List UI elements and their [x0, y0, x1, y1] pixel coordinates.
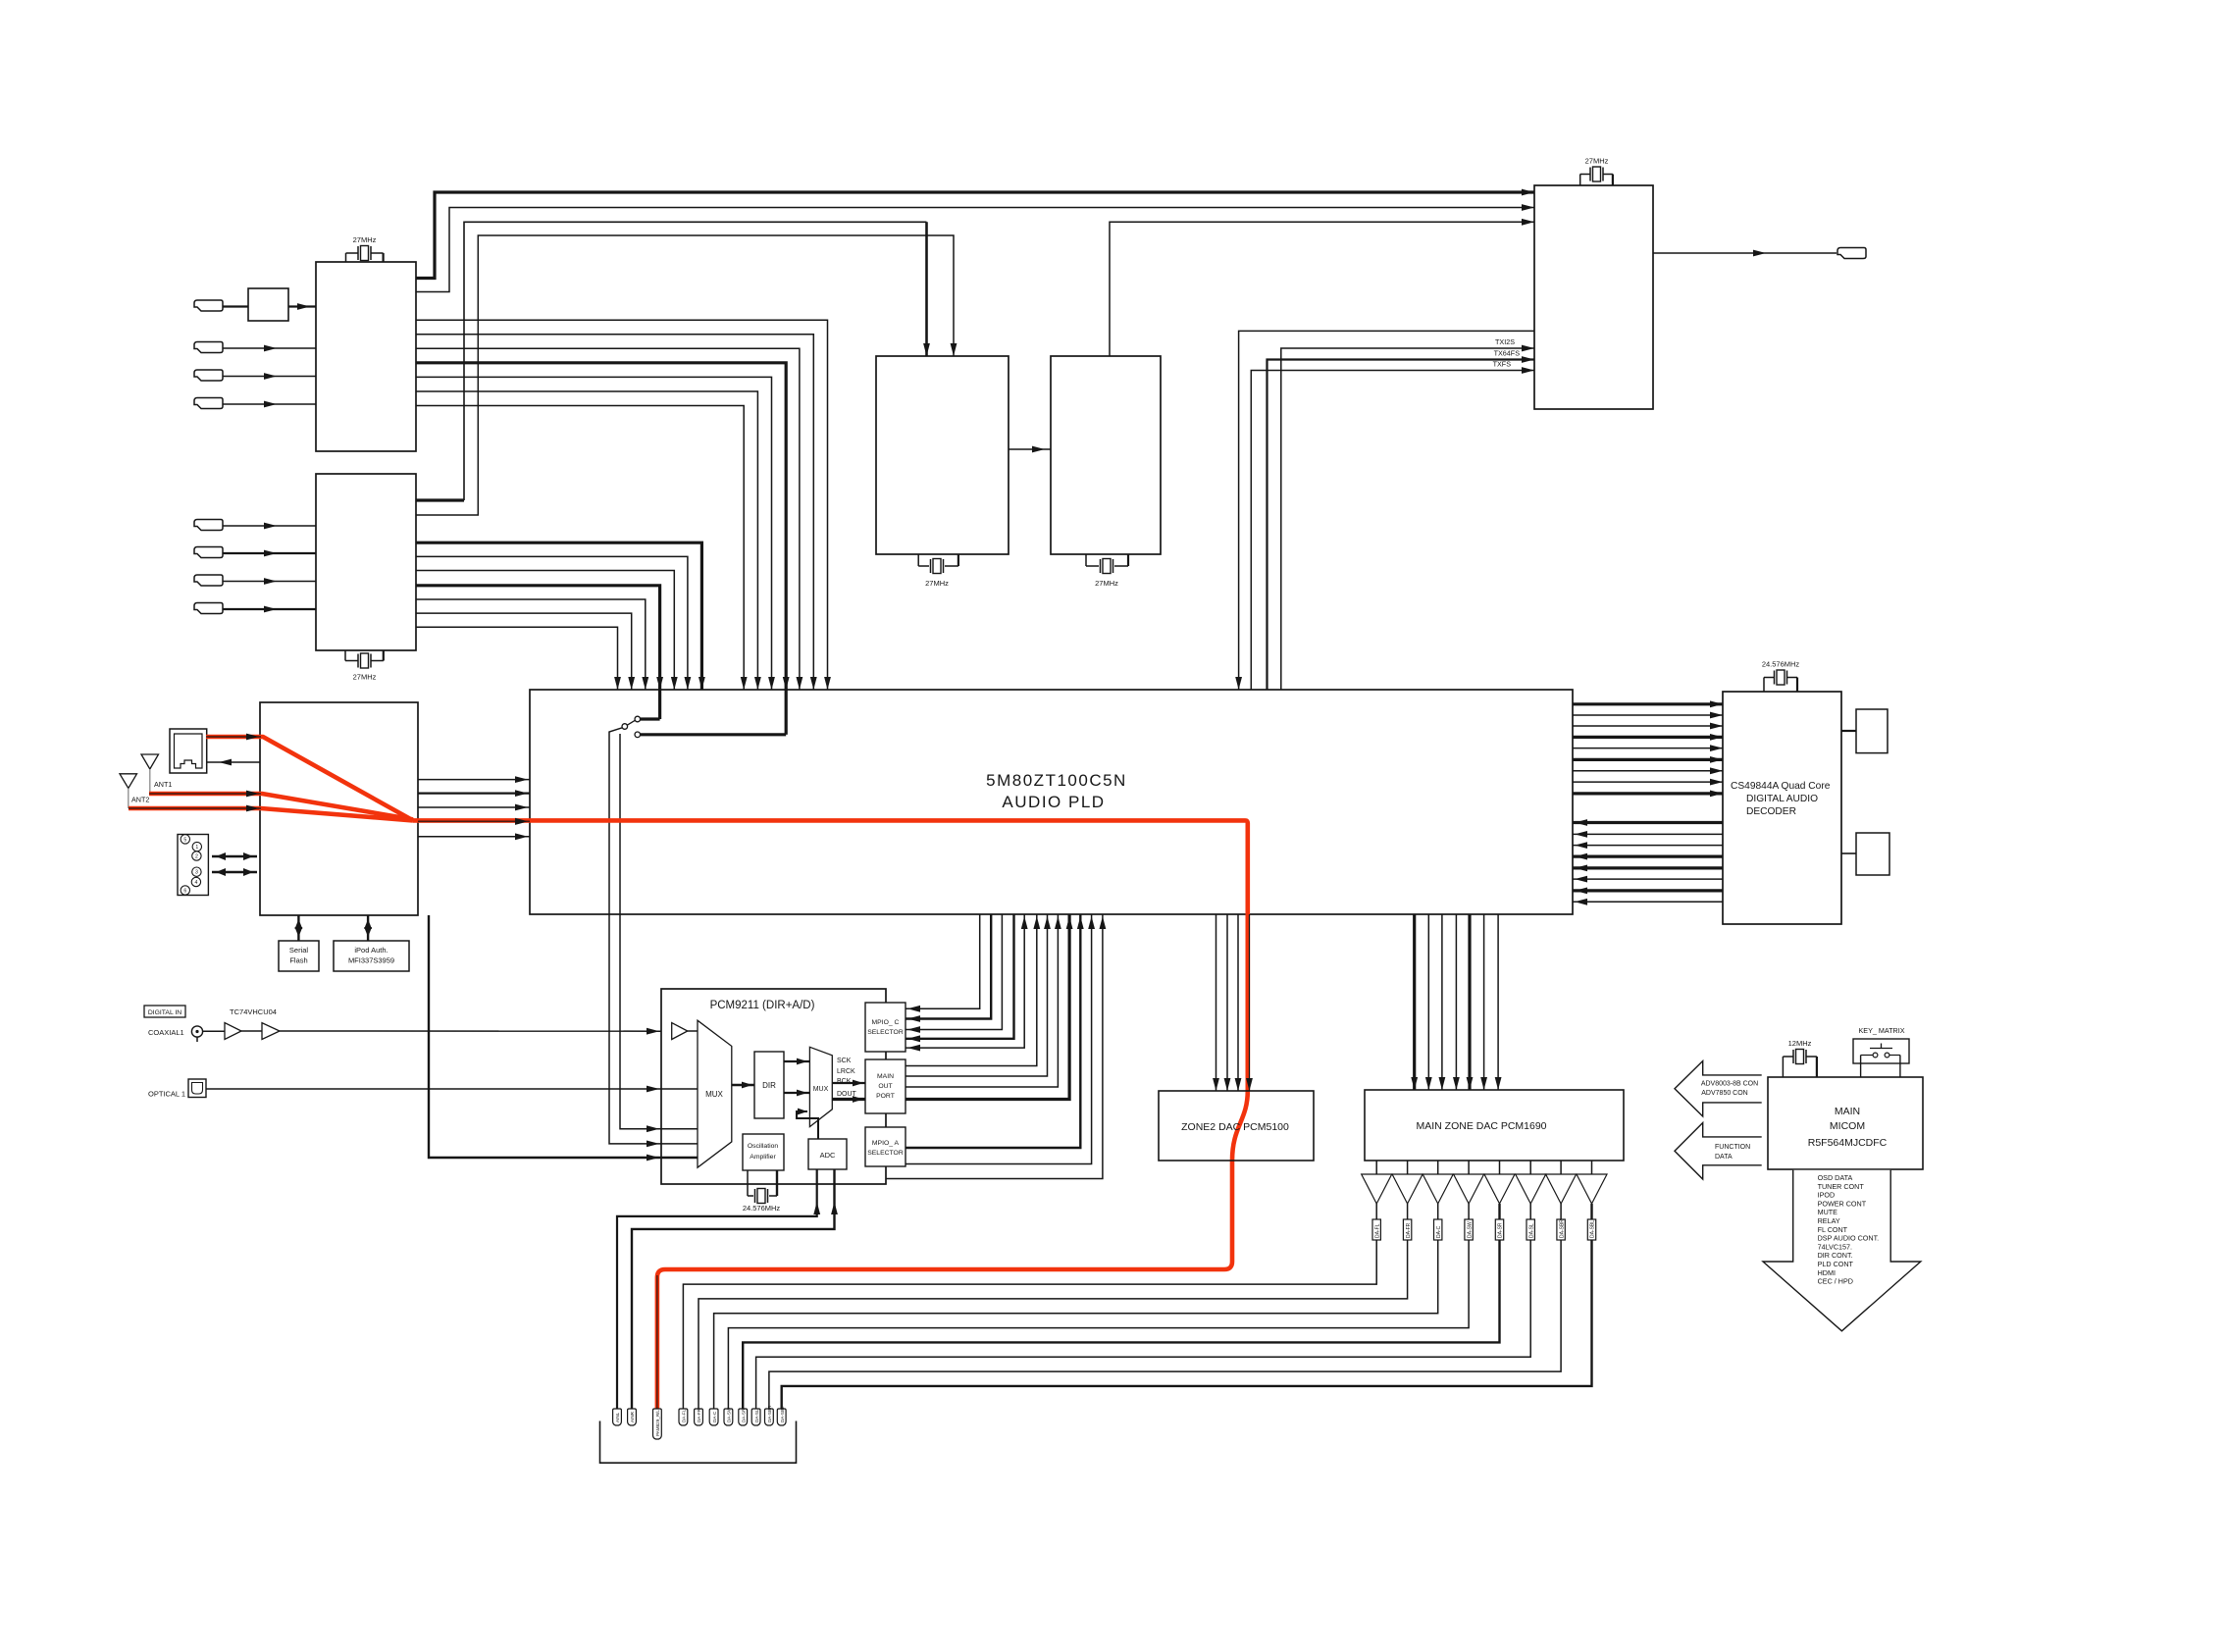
svg-text:5M80ZT100C5N: 5M80ZT100C5N [986, 771, 1127, 790]
Oscillation Amplifier block [743, 1134, 784, 1170]
svg-text:DIGITAL AUDIO: DIGITAL AUDIO [1746, 794, 1818, 804]
wire R2 to output connector pin [699, 1240, 1408, 1409]
resistor R1 DA-FL [1372, 1219, 1380, 1240]
wire wireless module to PLD line 4 [418, 820, 530, 822]
black core of red wire from LAN jack [206, 736, 261, 738]
AUDIO PLD block 5M80ZT100C5N [530, 690, 1573, 914]
svg-text:MPIO_ C: MPIO_ C [872, 1019, 900, 1026]
wire U2 output 5 to PLD top [416, 599, 646, 690]
wire module to DIN connector (bus 1) [212, 855, 257, 858]
svg-text:DA-SR: DA-SR [1498, 1222, 1504, 1238]
op-amp buffer A4 under MAIN ZONE DAC [1468, 1161, 1470, 1174]
svg-text:AINR: AINR [630, 1411, 635, 1422]
wire U2 output 4 to PLD top [416, 586, 660, 690]
svg-text:POWER CONT: POWER CONT [1818, 1199, 1867, 1208]
wire decoder to PLD line 8 [1573, 901, 1723, 903]
wire MAIN OUT PORT to PLD line 4 [906, 914, 1069, 1100]
svg-text:DA-SW: DA-SW [727, 1407, 732, 1422]
wire decoder to PLD line 4 [1573, 854, 1723, 857]
wire PLD to decoder line 7 [1573, 770, 1723, 772]
svg-text:MFI337S3959: MFI337S3959 [348, 956, 394, 965]
red highlighted audio path (net AIR_IN) [129, 737, 1248, 1409]
wire PLD to MAIN ZONE DAC line 3 [1441, 914, 1443, 1090]
wire DIR to output MUX line 1 [784, 1060, 809, 1062]
svg-text:5: 5 [183, 837, 186, 843]
output connector pin tag DA-SR [739, 1409, 748, 1425]
output connector pin tag DA-SBR [765, 1409, 774, 1425]
HDMI transmitter block U5 [1534, 185, 1653, 409]
wire R8 to output connector pin [782, 1240, 1592, 1409]
SDRAM block right of decoder [1856, 709, 1888, 753]
wire PLD to MPIO_C line 5 [906, 914, 1024, 1048]
svg-text:KEY_ MATRIX: KEY_ MATRIX [1859, 1026, 1905, 1035]
wire A2 to resistor R2 [1407, 1204, 1409, 1219]
wire PLD to decoder line 8 [1573, 781, 1723, 783]
MPIO_A SELECTOR block [865, 1127, 906, 1166]
wire J8 to U2 [223, 608, 316, 610]
svg-text:Amplifier: Amplifier [750, 1154, 776, 1161]
svg-text:27MHz: 27MHz [1095, 579, 1118, 588]
buffer 2 TC74VHCU04 [262, 1023, 280, 1040]
svg-text:SELECTOR: SELECTOR [867, 1029, 904, 1036]
wire wireless module to PLD line 1 [418, 779, 530, 781]
wire PLD to MAIN ZONE DAC line 2 [1427, 914, 1429, 1090]
MAIN MICOM block R5F564MJCDFC [1768, 1077, 1923, 1169]
svg-text:MICOM: MICOM [1830, 1120, 1865, 1132]
svg-text:ADV8003-8B CON: ADV8003-8B CON [1701, 1081, 1758, 1088]
wire PLD to MPIO_C line 3 [906, 914, 1002, 1030]
wire module to iPod Auth [367, 915, 369, 941]
wire PLD to ZONE2 DAC line 4 (red path core) [1249, 914, 1251, 1091]
output connector pin tag DA-SBL [777, 1409, 786, 1425]
audio output connector shell [600, 1421, 797, 1464]
wire PLD to MAIN ZONE DAC line 5 [1468, 914, 1471, 1090]
HDMI output connector J9 [1837, 248, 1866, 259]
wire MUX to DIR [732, 1084, 754, 1087]
digital audio decoder block CS49844A [1723, 692, 1841, 924]
svg-text:SCK: SCK [837, 1058, 852, 1064]
svg-text:DIR CONT.: DIR CONT. [1818, 1251, 1853, 1260]
DIR block inside PCM9211 [754, 1052, 784, 1118]
HDMI input connector J3 [194, 370, 223, 381]
wire U2 output 3 to PLD top [416, 571, 674, 691]
wire PLD to ZONE2 DAC line 3 [1237, 914, 1239, 1091]
wire MAIN OUT PORT to PLD line 2 [906, 914, 1048, 1076]
wire decoder to PLD line 6 [1573, 878, 1723, 880]
svg-text:TC74VHCU04: TC74VHCU04 [230, 1007, 277, 1016]
op-amp buffer A5 under MAIN ZONE DAC [1499, 1161, 1501, 1174]
black core of red wire at bottom connector [656, 1275, 658, 1409]
wire wireless module down to PCM9211 [429, 915, 661, 1158]
wire R4 to output connector pin [728, 1240, 1469, 1409]
wire A5 to resistor R5 [1498, 1204, 1500, 1219]
svg-text:DA-FR: DA-FR [697, 1408, 701, 1422]
svg-text:MAIN: MAIN [1835, 1106, 1860, 1117]
svg-text:OSD DATA: OSD DATA [1818, 1173, 1853, 1182]
wire DIR to output MUX line 2 [784, 1092, 809, 1094]
level shifter box [248, 288, 288, 321]
wire wireless module to PLD line 3 [418, 806, 530, 808]
svg-text:24.576MHz: 24.576MHz [743, 1204, 781, 1213]
svg-text:DA-C: DA-C [712, 1411, 717, 1422]
wire TXI2S PLD to U5 [1281, 348, 1534, 914]
wire MPIO_A to PLD line 2 [906, 914, 1092, 1164]
output connector pin tag AINR [628, 1409, 637, 1425]
svg-text:DATA: DATA [1715, 1154, 1733, 1161]
wire TX64FS PLD to U5 [1268, 360, 1535, 915]
wireless module block (WiFi/BT) [260, 702, 418, 915]
wire U1 output 1 to PLD top [416, 320, 828, 690]
wire MAIN OUT PORT to PLD line 3 [906, 914, 1058, 1087]
svg-text:MAIN: MAIN [877, 1073, 894, 1080]
wire MPIO_A to PLD line 3 [886, 914, 1103, 1179]
wire PLD to MPIO_C line 4 [906, 914, 1014, 1039]
svg-text:MUTE: MUTE [1818, 1208, 1838, 1216]
svg-text:ANT1: ANT1 [154, 780, 172, 789]
wire wireless module to PLD line 5 [418, 836, 530, 838]
ZONE2 DAC PCM5100 block [1159, 1091, 1314, 1161]
input select switch SW1 inside PLD [658, 690, 661, 719]
svg-text:COAXIAL1: COAXIAL1 [148, 1028, 184, 1037]
wire module to Serial Flash [297, 915, 299, 941]
wire PLD to decoder line 4 [1573, 736, 1723, 739]
wire U1 output 4 to PLD top [416, 363, 786, 690]
wire R1 to output connector pin [683, 1240, 1376, 1409]
svg-text:TXFS: TXFS [1493, 360, 1512, 369]
block arrow MICOM to FUNCTION DATA [1675, 1123, 1762, 1180]
wire U5 output to J9 [1653, 252, 1837, 254]
wire key matrix to MICOM right [1899, 1056, 1901, 1078]
svg-text:PAM829_R/L: PAM829_R/L [655, 1410, 660, 1436]
svg-text:CEC / HPD: CEC / HPD [1818, 1277, 1853, 1286]
video encoder block U4 [1051, 356, 1161, 554]
wire level shifter to HDMI receiver U1 [288, 305, 316, 307]
op-amp buffer A8 under MAIN ZONE DAC [1591, 1161, 1593, 1174]
svg-text:PLD CONT: PLD CONT [1818, 1260, 1854, 1268]
svg-text:FL CONT: FL CONT [1818, 1225, 1848, 1234]
svg-text:DA-SW: DA-SW [1467, 1221, 1473, 1238]
antenna ANT2 [120, 774, 137, 789]
wire PLD to decoder line 6 [1573, 758, 1723, 761]
wire PLD to ZONE2 DAC line 1 [1216, 914, 1217, 1091]
wire U1 output 2 to PLD top [416, 335, 813, 690]
DIGITAL IN label [144, 1006, 185, 1017]
HDMI input connector J2 [194, 342, 223, 353]
wire R3 to output connector pin [714, 1240, 1438, 1409]
output connector pin tag PAM829_R/L [653, 1409, 662, 1439]
wire PLD to MAIN ZONE DAC line 4 [1455, 914, 1457, 1090]
wire coaxial to buffers to PCM9211 [203, 1030, 225, 1032]
DIN connector J11 [178, 835, 208, 896]
svg-text:R5F564MJCDFC: R5F564MJCDFC [1808, 1137, 1888, 1149]
svg-text:DA-SBL: DA-SBL [1590, 1220, 1596, 1238]
resistor R8 DA-SBL [1587, 1219, 1595, 1240]
svg-text:DSP AUDIO CONT.: DSP AUDIO CONT. [1818, 1234, 1880, 1243]
svg-text:ADV7850 CON: ADV7850 CON [1701, 1090, 1747, 1097]
svg-text:LRCK: LRCK [837, 1068, 855, 1075]
output connector pin tag DA-SW [724, 1409, 733, 1425]
svg-text:AUDIO PLD: AUDIO PLD [1002, 793, 1105, 811]
svg-text:6: 6 [183, 889, 186, 895]
MPIO_C SELECTOR block [865, 1003, 906, 1052]
output connector pin tag DA-C [709, 1409, 718, 1425]
wire module to LAN jack [207, 761, 260, 763]
resistor R3 DA-C [1434, 1219, 1442, 1240]
wire A4 to resistor R4 [1468, 1204, 1470, 1219]
wire U2 output 1 to PLD top [416, 542, 701, 690]
wire decoder to SDRAM [1841, 730, 1856, 732]
wire decoder to PLD line 2 [1573, 833, 1723, 835]
wire TXFS PLD to U5 [1251, 371, 1534, 915]
HDMI input connector J7 [194, 575, 223, 586]
wire PLD to MAIN ZONE DAC line 6 [1483, 914, 1485, 1090]
antenna ANT1 [141, 754, 159, 769]
op-amp buffer A1 under MAIN ZONE DAC [1375, 1161, 1377, 1174]
svg-text:74LVC157.: 74LVC157. [1818, 1242, 1852, 1251]
svg-text:MUX: MUX [813, 1086, 829, 1093]
svg-text:Flash: Flash [289, 956, 307, 965]
HDMI receiver block U1 [316, 262, 416, 451]
HDMI input connector J6 [194, 547, 223, 558]
wire PLD to decoder line 3 [1573, 725, 1723, 727]
buffer 1 TC74VHCU04 [225, 1023, 241, 1040]
svg-text:OUT: OUT [878, 1083, 892, 1090]
svg-text:ADC: ADC [820, 1151, 836, 1160]
wire wireless module to PLD line 2 [418, 792, 530, 794]
output MUX inside PCM9211 [809, 1047, 832, 1126]
wire PLD to MPIO_C line 2 [906, 914, 991, 1019]
wire output MUX to MAIN OUT PORT (SCK LRCK BCK) [832, 1082, 865, 1084]
svg-text:SELECTOR: SELECTOR [867, 1150, 904, 1157]
wire R6 to output connector pin [756, 1240, 1531, 1409]
op-amp buffer A3 under MAIN ZONE DAC [1437, 1161, 1439, 1174]
wire MAIN OUT PORT to PLD line 1 [906, 914, 1037, 1066]
svg-text:DA-SBR: DA-SBR [1559, 1219, 1565, 1238]
svg-text:DIGITAL IN: DIGITAL IN [148, 1009, 181, 1016]
wire analog input pin to ADC (left) [617, 1169, 817, 1409]
MAIN ZONE DAC PCM1690 block [1365, 1090, 1624, 1161]
wire PLD to decoder line 1 [1573, 702, 1723, 705]
wire U3 to U4 [1009, 448, 1051, 450]
resistor R7 DA-SBR [1557, 1219, 1565, 1240]
wire U1 out2 to U5 (top bus line 2) [416, 208, 1534, 292]
svg-text:HDMI: HDMI [1818, 1268, 1836, 1277]
wire ADC to output MUX [797, 1111, 818, 1139]
output connector pin tag DA-FR [695, 1409, 703, 1425]
HDMI input connector J1 [194, 300, 223, 311]
wire U4 to U5 [1110, 222, 1534, 356]
wire J3 to U1 [223, 376, 316, 378]
svg-text:CS49844A Quad Core: CS49844A Quad Core [1731, 781, 1831, 792]
svg-text:27MHz: 27MHz [353, 673, 377, 682]
svg-text:PORT: PORT [876, 1093, 895, 1100]
wire J4 to U1 [223, 403, 316, 405]
crystal X3 27MHz for U3 [917, 554, 919, 566]
svg-text:DA-FL: DA-FL [1374, 1223, 1380, 1238]
crystal X4 27MHz for U4 [1085, 554, 1087, 566]
wire U2 output 6 to PLD top [416, 613, 632, 690]
wire U1 output 3 to PLD top [416, 348, 800, 690]
wire decoder to PLD line 7 [1573, 889, 1723, 892]
ADC block inside PCM9211 [808, 1139, 847, 1169]
wire J5 to U2 [223, 525, 316, 527]
op-amp buffer A7 under MAIN ZONE DAC [1560, 1161, 1562, 1174]
MAIN OUT PORT block [865, 1059, 906, 1113]
output connector pin tag AINL [613, 1409, 622, 1425]
HDMI input connector J5 [194, 520, 223, 531]
svg-text:ZONE2 DAC PCM5100: ZONE2 DAC PCM5100 [1181, 1121, 1289, 1133]
wire PLD to MAIN ZONE DAC line 1 [1413, 914, 1416, 1090]
wire J6 to U2 [223, 552, 316, 554]
svg-text:12MHz: 12MHz [1788, 1039, 1812, 1048]
resistor R5 DA-SR [1495, 1219, 1503, 1240]
svg-text:iPod Auth.: iPod Auth. [354, 946, 388, 955]
iPod Auth block MFI337S3959 [334, 941, 409, 971]
wire PLD to ZONE2 DAC line 2 [1226, 914, 1228, 1091]
wire PLD to U5 (unlabeled) [1239, 331, 1534, 690]
svg-text:DA-SBR: DA-SBR [767, 1405, 772, 1422]
wire A8 to resistor R8 [1590, 1204, 1592, 1219]
wire U2 out1 to U3 (top bus line 3) [416, 498, 464, 501]
wire optical into PCM9211 MUX [661, 1088, 698, 1090]
wire DOUT from output MUX [832, 1098, 865, 1101]
HDMI receiver block U2 [316, 474, 416, 650]
svg-text:TXI2S: TXI2S [1495, 337, 1515, 346]
wire A6 to resistor R6 [1529, 1204, 1531, 1219]
HDMI input connector J4 [194, 398, 223, 409]
wire decoder to PLD line 3 [1573, 845, 1723, 847]
wire U2 output 2 to PLD top [416, 556, 688, 690]
svg-text:TUNER CONT: TUNER CONT [1818, 1182, 1865, 1191]
wire R7 to output connector pin [769, 1240, 1561, 1409]
op-amp buffer A6 under MAIN ZONE DAC [1529, 1161, 1531, 1174]
wire PLD to MAIN ZONE DAC line 7 [1497, 914, 1499, 1090]
svg-text:IPOD: IPOD [1818, 1191, 1836, 1200]
wire U1 output 7 to PLD top [416, 406, 744, 691]
wire A3 to resistor R3 [1437, 1204, 1439, 1219]
svg-text:DA-SR: DA-SR [741, 1408, 746, 1422]
HDMI input connector J8 [194, 603, 223, 614]
svg-text:Serial: Serial [289, 946, 309, 955]
wire U2 output 7 to PLD top [416, 627, 618, 690]
svg-text:27MHz: 27MHz [1585, 157, 1609, 166]
wire MPIO_A to PLD line 1 [906, 914, 1080, 1148]
wire A1 to resistor R1 [1375, 1204, 1377, 1219]
wire PLD to decoder line 5 [1573, 748, 1723, 749]
svg-text:OPTICAL 1: OPTICAL 1 [148, 1090, 185, 1099]
block arrow MICOM to ADV8003/ADV7850 connectors [1675, 1061, 1762, 1117]
flash block right of decoder [1856, 833, 1889, 875]
wire J2 to U1 [223, 347, 316, 349]
black core of red wire from ANT2 [129, 807, 261, 809]
wire U1 output 5 to PLD top [416, 377, 772, 690]
crystal X6 24.576MHz for decoder [1763, 678, 1765, 693]
wire decoder to flash [1841, 852, 1856, 854]
op-amp buffer A2 under MAIN ZONE DAC [1407, 1161, 1409, 1174]
wire U2 out2 to U3 (top bus line 4) [416, 235, 954, 515]
wire PLD to MPIO_C line 1 [906, 914, 980, 1008]
svg-text:PCM9211 (DIR+A/D): PCM9211 (DIR+A/D) [710, 1000, 815, 1011]
svg-text:24.576MHz: 24.576MHz [1762, 660, 1800, 669]
svg-text:MPIO_ A: MPIO_ A [872, 1140, 900, 1147]
wire PLD to decoder line 2 [1573, 714, 1723, 716]
wire U1 output 6 to PLD top [416, 391, 757, 690]
input buffer inside PCM9211 [672, 1023, 688, 1040]
svg-text:ANT2: ANT2 [131, 796, 149, 804]
svg-text:TX64FS: TX64FS [1494, 349, 1521, 358]
svg-text:DOUT: DOUT [837, 1091, 857, 1098]
svg-text:BCK: BCK [837, 1078, 852, 1085]
output connector pin tag DA-SL [751, 1409, 760, 1425]
wire key matrix to MICOM left [1860, 1056, 1862, 1078]
svg-text:1: 1 [195, 845, 198, 851]
svg-text:2: 2 [195, 854, 198, 860]
svg-text:DA-FR: DA-FR [1406, 1222, 1412, 1238]
svg-text:DA-SL: DA-SL [754, 1409, 759, 1422]
wire A7 to resistor R7 [1560, 1204, 1562, 1219]
resistor R6 DA-SL [1526, 1219, 1534, 1240]
svg-text:Oscillation: Oscillation [748, 1143, 779, 1150]
svg-text:DA-FL: DA-FL [682, 1409, 687, 1422]
wire PLD to decoder line 9 [1573, 792, 1723, 795]
wire U1 out1 to U5 (top bus line 1) [416, 192, 1534, 279]
output connector pin tag DA-FL [679, 1409, 688, 1425]
wire module to DIN connector (bus 2) [212, 871, 257, 874]
svg-text:4: 4 [194, 880, 197, 886]
resistor R4 DA-SW [1465, 1219, 1473, 1240]
svg-text:DA-C: DA-C [1436, 1225, 1442, 1238]
crystal X2 27MHz for U2 [344, 650, 346, 661]
wire J1 to level shifter [223, 305, 248, 307]
svg-text:DA-SL: DA-SL [1528, 1223, 1534, 1238]
key switch symbol [1873, 1053, 1878, 1058]
crystal X5 27MHz for U5 [1579, 175, 1581, 186]
resistor R2 DA-FR [1403, 1219, 1411, 1240]
crystal X7 24.576MHz for PCM9211 [747, 1170, 749, 1196]
wire decoder to PLD line 1 [1573, 821, 1723, 824]
svg-text:DA-SBL: DA-SBL [780, 1406, 785, 1422]
crystal X8 12MHz for MICOM [1782, 1057, 1784, 1077]
Serial Flash block [279, 941, 319, 971]
svg-text:DECODER: DECODER [1746, 806, 1796, 817]
black core of red wire from ANT1 [149, 793, 261, 795]
svg-text:MUX: MUX [705, 1090, 723, 1099]
wire J7 to U2 [223, 581, 316, 583]
wire analog input pin to ADC (right) [632, 1169, 835, 1409]
wire PLD to PCM9211 MUX input 2 [620, 734, 661, 1129]
wire buffer to MUX [688, 1030, 698, 1032]
input MUX inside PCM9211 [698, 1020, 732, 1167]
crystal X1 27MHz for U1 [345, 253, 347, 262]
svg-text:3: 3 [195, 870, 198, 876]
svg-text:27MHz: 27MHz [925, 579, 949, 588]
svg-text:RELAY: RELAY [1818, 1216, 1840, 1225]
svg-text:DIR: DIR [762, 1081, 776, 1090]
optical TOSLINK connector [188, 1079, 206, 1098]
big control arrow from MICOM [1763, 1170, 1921, 1331]
svg-text:MAIN ZONE DAC PCM1690: MAIN ZONE DAC PCM1690 [1416, 1120, 1546, 1132]
wire switch common down to PCM9211 MUX [609, 728, 661, 1144]
PCM9211 (DIR+A/D) block [661, 989, 886, 1184]
wire R5 to output connector pin [743, 1240, 1499, 1409]
RCA coaxial connector [191, 1026, 202, 1037]
LAN jack connector J10 [170, 729, 207, 773]
video processor block U3 [876, 356, 1009, 554]
black core of red wire into PLD [418, 820, 530, 822]
svg-text:27MHz: 27MHz [353, 235, 377, 244]
wire decoder to PLD line 5 [1573, 866, 1723, 869]
svg-text:FUNCTION: FUNCTION [1715, 1144, 1750, 1151]
